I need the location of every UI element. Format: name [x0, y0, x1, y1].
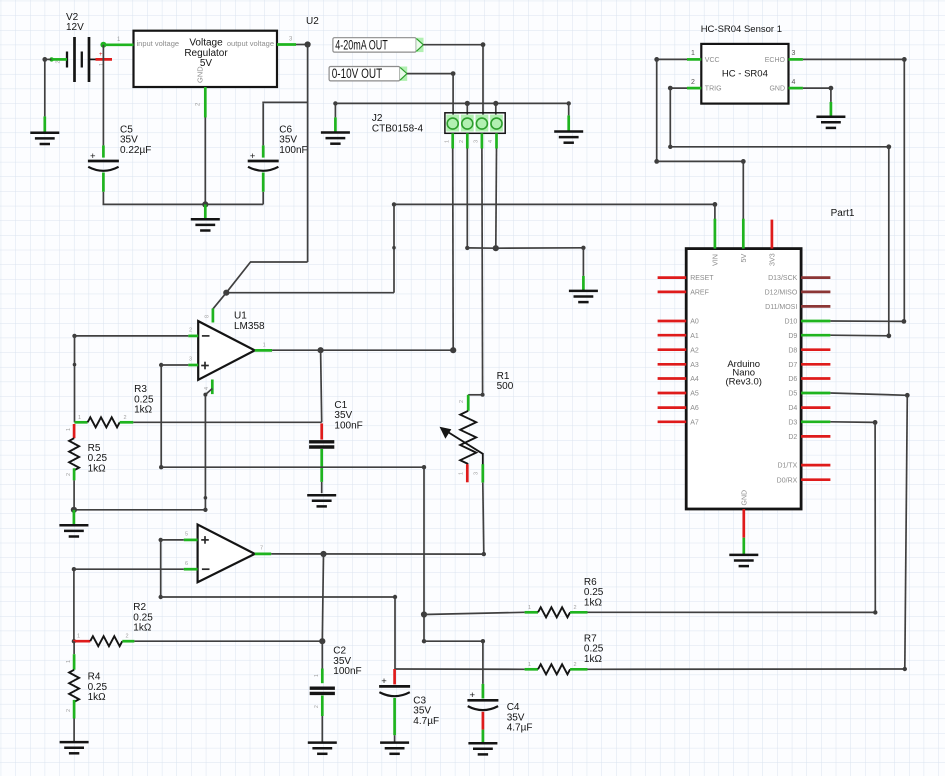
Arduino pin D3 — [788, 419, 830, 426]
svg-text:HC - SR04: HC - SR04 — [722, 69, 768, 80]
wire R5 to ground node — [73, 480, 75, 509]
svg-text:TRIG: TRIG — [705, 86, 722, 93]
Arduino pin A5 (red, unconnected) — [658, 391, 699, 398]
svg-text:4: 4 — [488, 140, 494, 143]
wire C2 branch down — [322, 554, 323, 641]
svg-text:0.22µF: 0.22µF — [120, 145, 151, 156]
wire HC-SR04 GND to ground — [803, 86, 833, 102]
svg-text:A5: A5 — [690, 391, 699, 398]
battery V2 pin + (red, unconnected) — [96, 52, 113, 59]
ground (C1) — [307, 495, 336, 506]
svg-text:4: 4 — [204, 387, 210, 390]
wire U1B inverting input to R2/R4 — [72, 567, 184, 643]
resistor R3 pin 1 (green) — [75, 415, 88, 423]
capacitor C4 label — [507, 702, 533, 733]
U2 pin 1 input (green) + wire from battery — [100, 37, 133, 48]
wire R2 junction to R4 — [73, 641, 75, 654]
wire J2 gnd rail — [333, 101, 571, 117]
wire ECHO to Arduino D10 — [803, 57, 907, 321]
Arduino pin RESET (red, unconnected) — [658, 275, 715, 282]
wire C5 to gnd rail — [103, 192, 264, 205]
svg-text:GND: GND — [769, 86, 785, 93]
wire battery - to ground — [42, 57, 51, 116]
Arduino pin A4 (red, unconnected) — [658, 376, 699, 383]
svg-text:3: 3 — [474, 140, 480, 143]
wire R4 to ground — [73, 719, 75, 742]
connector J2 label — [372, 113, 424, 134]
resistor R6 pin 1 (green) — [525, 605, 538, 613]
wire J2 pin4 stub down — [495, 103, 497, 119]
svg-text:(Rev3.0): (Rev3.0) — [725, 376, 761, 387]
svg-text:2: 2 — [66, 709, 72, 712]
svg-text:A2: A2 — [690, 347, 699, 354]
wire VCC to Arduino 5V — [654, 57, 745, 220]
capacitor C4 — [467, 690, 498, 710]
potentiometer R1 pin 2 (green) — [459, 395, 468, 411]
svg-text:2: 2 — [126, 634, 129, 640]
ground (HC-SR04) — [816, 102, 845, 128]
capacitor C2 pin 2 (green) — [314, 696, 322, 717]
wire R3 to C1 — [133, 421, 321, 423]
wire C4 pin to ground stub — [482, 730, 485, 743]
svg-text:2: 2 — [56, 60, 62, 63]
svg-text:100nF: 100nF — [334, 420, 362, 431]
svg-text:1: 1 — [314, 674, 320, 677]
svg-text:D9: D9 — [788, 333, 797, 340]
ground (battery) — [30, 116, 59, 144]
svg-text:input voltage: input voltage — [137, 39, 180, 48]
resistor R5 label — [88, 443, 108, 474]
wire U1 output — [272, 349, 453, 351]
op-amp U1 — [198, 321, 255, 380]
potentiometer R1 pin 1 (red, unconnected) — [459, 464, 468, 482]
node R2 / C2 — [319, 638, 325, 644]
svg-text:Voltage: Voltage — [189, 38, 223, 49]
resistor R2 pin 2 (green) — [122, 634, 134, 642]
svg-text:D11/MOSI: D11/MOSI — [765, 304, 797, 311]
svg-text:2: 2 — [459, 140, 465, 143]
wire C1 branch down — [321, 350, 322, 422]
wire J2 pin3 to R1 — [468, 149, 484, 397]
svg-text:+: + — [381, 676, 387, 687]
wire U1B +input to C3/R7 — [159, 538, 525, 670]
svg-text:2: 2 — [574, 605, 577, 611]
wire R7 to D5 — [588, 667, 908, 671]
svg-text:3: 3 — [474, 472, 480, 475]
svg-text:A0: A0 — [690, 319, 699, 326]
svg-text:D8: D8 — [788, 347, 797, 354]
resistor R6 label — [584, 577, 604, 608]
resistor R3 — [88, 417, 120, 427]
ground (R5 / U1 V-) — [59, 510, 88, 537]
Arduino pin 3V3 (red, unconnected) — [771, 220, 774, 249]
wire C3 to ground — [394, 735, 396, 741]
svg-text:1: 1 — [77, 634, 80, 640]
flag 0-10V OUT — [329, 66, 407, 81]
capacitor C6 pin 1 (green) — [262, 145, 265, 157]
capacitor C1 pin 2 (green) — [320, 449, 323, 482]
node J2 pin4/pin2 gnd — [493, 245, 499, 251]
wire U1B output — [271, 553, 484, 555]
resistor R2 — [90, 636, 122, 646]
svg-text:1kΩ: 1kΩ — [584, 654, 603, 665]
svg-text:2: 2 — [691, 79, 695, 86]
svg-text:+: + — [90, 151, 96, 162]
voltage regulator U2 label — [306, 16, 319, 27]
svg-text:1kΩ: 1kΩ — [88, 692, 107, 703]
battery V2 label — [66, 12, 84, 33]
wire TRIG to Arduino D9 — [668, 86, 891, 336]
op-amp U1 pin 2 inverting (green) — [188, 328, 198, 336]
resistor R6 — [538, 607, 570, 617]
HC-SR04 sensor label — [701, 24, 782, 35]
wire C6 top — [262, 102, 307, 204]
resistor R2 pin 1 (red, unconnected) — [73, 634, 90, 642]
ground (J2 pins 2/4) — [569, 276, 598, 302]
svg-text:U2: U2 — [306, 16, 319, 27]
svg-text:VIN: VIN — [711, 254, 720, 266]
capacitor C1 label — [334, 400, 362, 431]
wire battery + down to C5 — [102, 45, 104, 146]
capacitor C6 pin 2 (green) — [262, 173, 265, 192]
resistor R5 pin 1 (red, unconnected) — [66, 424, 74, 438]
svg-text:1: 1 — [66, 428, 72, 431]
potentiometer R1 pin 3 (green) — [474, 464, 483, 482]
svg-text:A1: A1 — [690, 333, 699, 340]
resistor R4 label — [88, 672, 108, 703]
wire VIN from 5V rail node — [713, 202, 718, 220]
Arduino pin D6 (red, unconnected) — [788, 376, 830, 383]
wire U2 GND down — [204, 118, 206, 205]
resistor R7 — [538, 664, 570, 674]
Arduino pin D9 — [788, 333, 830, 340]
wire node A to U1 V+ — [213, 293, 226, 309]
svg-text:3V3: 3V3 — [768, 253, 777, 266]
svg-text:D4: D4 — [788, 405, 797, 412]
svg-text:output voltage: output voltage — [227, 39, 274, 48]
capacitor C2 label — [333, 646, 361, 677]
ground (J2 rail right) — [554, 115, 583, 142]
Arduino pin GND (red) — [742, 509, 745, 538]
ground (Arduino) — [729, 538, 758, 566]
svg-text:2: 2 — [189, 328, 192, 334]
svg-text:1: 1 — [691, 50, 695, 57]
capacitor C6 label — [279, 124, 307, 155]
U2 pin 3 output (green) — [277, 37, 296, 45]
svg-text:D12/MISO: D12/MISO — [765, 290, 798, 297]
potentiometer R1 wiper arrow — [440, 427, 483, 465]
ground (C5/C6 rail) — [191, 204, 220, 230]
capacitor C5 label — [120, 124, 151, 155]
capacitor C5 pin 1 (green) — [102, 145, 105, 157]
svg-text:D10: D10 — [784, 319, 797, 326]
HC-SR04 pin 3 ECHO (green) — [789, 58, 803, 61]
wire C2 to ground — [321, 716, 323, 742]
capacitor C2 pin 1 (green) — [314, 669, 322, 684]
wire 0-10V OUT to J2 pin1 — [407, 71, 456, 119]
capacitor C3 label — [413, 696, 439, 727]
capacitor C1 pin 1 (red, unconnected) — [320, 423, 323, 439]
svg-text:1: 1 — [263, 342, 266, 348]
svg-text:1: 1 — [66, 660, 72, 663]
wire C1 to ground — [321, 482, 323, 493]
wire gnd branch right — [496, 246, 586, 276]
wire J2 pin2 to gnd — [465, 149, 496, 251]
op-amp U1B — [198, 525, 255, 583]
HC-SR04 pin 2 TRIG (green) — [687, 87, 701, 90]
capacitor C4 pin 1 (red, unconnected) — [482, 712, 485, 730]
svg-text:7: 7 — [260, 546, 263, 552]
ground (C3) — [380, 743, 409, 754]
capacitor C6 — [248, 151, 279, 171]
op-amp U1 pin 3 non-inverting (green) — [188, 357, 198, 365]
svg-text:4.7µF: 4.7µF — [413, 716, 439, 727]
svg-text:0-10V OUT: 0-10V OUT — [332, 66, 383, 81]
HC-SR04 pin 4 GND (green) — [789, 87, 803, 90]
svg-text:4-20mA OUT: 4-20mA OUT — [335, 37, 388, 52]
Arduino pin D8 (red, unconnected) — [788, 347, 830, 354]
HC-SR04 pin numbers — [691, 50, 796, 86]
op-amp U1B pin 7 output (green) — [255, 546, 271, 554]
Arduino pin VIN (green) — [714, 219, 717, 249]
wire R6 left — [424, 612, 525, 614]
svg-text:D7: D7 — [788, 362, 797, 369]
svg-text:3: 3 — [189, 357, 192, 363]
svg-text:A4: A4 — [690, 376, 699, 383]
svg-text:1: 1 — [459, 472, 465, 475]
wire D10 to ECHO — [830, 319, 906, 324]
op-amp U1 V+ pin (green) — [205, 309, 213, 323]
voltage regulator U2 box — [134, 31, 278, 87]
wire R1 wiper to op-amp2 output — [482, 483, 486, 557]
capacitor C3 pin 2 (green) — [393, 698, 396, 735]
svg-text:4.7µF: 4.7µF — [507, 723, 533, 734]
wire J2 pin1 to U1 output — [452, 149, 455, 351]
svg-text:D6: D6 — [788, 376, 797, 383]
Arduino pin D1/TX (red, unconnected) — [777, 463, 830, 470]
svg-text:1kΩ: 1kΩ — [133, 623, 152, 634]
capacitor C4 pin 2 (green) — [482, 684, 485, 699]
svg-text:A7: A7 — [690, 419, 699, 426]
svg-text:GND: GND — [196, 66, 205, 83]
resistor R5 — [69, 438, 79, 470]
Arduino part label — [831, 208, 855, 219]
potentiometer R1 — [460, 411, 476, 464]
resistor R3 label — [134, 384, 154, 415]
wire D5 to R7 — [830, 393, 909, 669]
svg-text:D2: D2 — [788, 434, 797, 441]
resistor R4 pin 2 (green) — [66, 700, 74, 719]
svg-text:D5: D5 — [788, 391, 797, 398]
node J2 rail pin4 — [493, 101, 498, 106]
op-amp U1 pin 1 output (green) — [255, 342, 272, 350]
svg-text:5: 5 — [185, 532, 188, 538]
resistor R7 label — [584, 634, 604, 665]
wire R2 to C2 — [134, 640, 322, 642]
flag 4-20mA OUT — [333, 37, 424, 52]
node R6 junction — [421, 611, 427, 617]
wire U2 output to node — [296, 44, 308, 46]
svg-text:4: 4 — [792, 79, 796, 86]
svg-text:VCC: VCC — [705, 57, 720, 64]
wire R6 to D3 — [588, 610, 878, 614]
Arduino pin D11/MOSI — [765, 304, 830, 311]
wire D9 to TRIG — [830, 333, 891, 338]
ground (R4) — [60, 742, 89, 753]
svg-text:12V: 12V — [66, 22, 84, 33]
Arduino pin D12/MISO — [765, 290, 831, 297]
wire D3 to R6 — [830, 420, 877, 612]
Arduino pin D10 — [784, 319, 830, 326]
connector J2 pin stubs (green) — [453, 133, 497, 148]
svg-text:2: 2 — [574, 662, 577, 668]
svg-text:AREF: AREF — [690, 290, 709, 297]
resistor R6 pin 2 (green) — [570, 605, 587, 613]
connector J2 pin numbers — [444, 140, 494, 143]
svg-text:100nF: 100nF — [333, 666, 361, 677]
svg-text:ECHO: ECHO — [765, 57, 786, 64]
Arduino pin D4 (red, unconnected) — [788, 405, 830, 412]
svg-text:1: 1 — [528, 605, 531, 611]
resistor R2 label — [133, 602, 153, 633]
wire U1 inverting input to R3/R5 — [72, 334, 188, 423]
svg-text:1kΩ: 1kΩ — [134, 405, 153, 416]
capacitor C1 — [309, 442, 334, 447]
Arduino pin D0/RX (red, unconnected) — [777, 477, 831, 484]
node J2 rail pin2 — [465, 101, 470, 106]
svg-text:+: + — [470, 690, 476, 701]
svg-text:+: + — [250, 151, 256, 162]
node U2 output (5V) — [305, 41, 311, 47]
svg-text:5V: 5V — [739, 254, 748, 263]
svg-text:A3: A3 — [690, 362, 699, 369]
svg-text:D1/TX: D1/TX — [777, 463, 797, 470]
wire J2 pin4 down — [495, 149, 498, 249]
capacitor C3 — [379, 676, 410, 696]
resistor R7 pin 1 (green) — [525, 662, 538, 670]
capacitor C5 pin 2 (green) — [102, 173, 105, 192]
svg-text:D3: D3 — [788, 419, 797, 426]
op-amp U1 label — [234, 311, 265, 332]
op-amp U1B pin 6 inverting (green) — [184, 561, 198, 569]
Arduino pin A3 (red, unconnected) — [658, 362, 699, 369]
svg-text:2: 2 — [459, 400, 465, 403]
wire U1 non-inverting input rail — [159, 363, 188, 467]
svg-text:2: 2 — [66, 473, 72, 476]
Arduino pin A1 (red, unconnected) — [658, 333, 699, 340]
svg-text:1: 1 — [78, 415, 81, 421]
Arduino top pin labels — [711, 253, 777, 505]
svg-text:6: 6 — [185, 561, 188, 567]
battery V2 pin - (green) — [49, 57, 67, 61]
ground (C2) — [308, 743, 337, 754]
svg-text:+: + — [99, 52, 103, 58]
node U1B output / C2 — [320, 551, 326, 557]
svg-text:8: 8 — [205, 315, 211, 318]
svg-text:1kΩ: 1kΩ — [584, 597, 603, 608]
op-amp U1 V- pin (green) — [204, 380, 212, 395]
svg-text:LM358: LM358 — [234, 321, 265, 332]
Arduino pin A7 (red, unconnected) — [658, 419, 699, 426]
ground (C4) — [468, 743, 497, 754]
battery V2 — [56, 37, 106, 82]
node A (5V to op-amp V+) — [223, 290, 229, 296]
Arduino Nano box — [686, 249, 801, 509]
svg-text:1: 1 — [528, 662, 531, 668]
Arduino pin A0 (red, unconnected) — [658, 319, 699, 326]
svg-text:D13/SCK: D13/SCK — [768, 275, 798, 282]
op-amp U1B pin 5 non-inverting (green) — [184, 532, 198, 540]
svg-text:Part1: Part1 — [831, 208, 855, 219]
svg-text:2: 2 — [314, 705, 320, 708]
resistor R4 — [69, 670, 79, 702]
resistor R7 pin 2 (green) — [570, 662, 587, 670]
capacitor C3 pin 1 (red, unconnected) — [393, 669, 396, 684]
svg-text:2: 2 — [124, 415, 127, 421]
resistor R5 pin 2 (green) — [66, 468, 74, 480]
svg-text:RESET: RESET — [690, 275, 714, 282]
wire 4-20mA OUT to J2 pin3 — [423, 42, 485, 119]
wire U1 +input rail to R6/C4 — [159, 465, 485, 684]
node U1 output / C1 — [318, 347, 324, 353]
Arduino pin D7 (red, unconnected) — [788, 362, 830, 369]
potentiometer R1 label — [497, 371, 514, 392]
wire 5V net: U2 out down/over to op-amp and rail — [226, 45, 715, 293]
node gnd rail — [202, 201, 208, 207]
svg-text:GND: GND — [742, 490, 749, 506]
Arduino pin D5 — [788, 391, 830, 398]
node U1 output / J2 pin1 — [450, 347, 456, 353]
svg-text:CTB0158-4: CTB0158-4 — [372, 123, 424, 134]
wire U1 V- down — [74, 389, 212, 512]
capacitor C5 — [88, 151, 119, 171]
HC-SR04 pin 1 VCC (green) — [687, 58, 701, 61]
Arduino pin A6 (red, unconnected) — [658, 405, 699, 412]
wire J2 pin2 stub down — [466, 103, 468, 119]
ground (J2 rail left) — [321, 117, 350, 143]
U2 pin 2 GND (green) — [196, 87, 206, 118]
node R5/ground — [71, 507, 77, 513]
connector J2 body — [445, 113, 505, 134]
svg-text:500: 500 — [497, 381, 514, 392]
svg-text:HC-SR04 Sensor 1: HC-SR04 Sensor 1 — [701, 24, 782, 35]
capacitor C2 — [310, 688, 335, 693]
svg-text:A6: A6 — [690, 405, 699, 412]
wire C2 top — [321, 641, 323, 668]
svg-text:3: 3 — [792, 50, 796, 57]
svg-text:1kΩ: 1kΩ — [88, 463, 107, 474]
Arduino pin A2 (red, unconnected) — [658, 347, 699, 354]
resistor R4 pin 1 (green) — [66, 654, 74, 670]
HC-SR04 sensor box — [701, 44, 788, 104]
resistor R3 pin 2 (green) — [120, 415, 134, 423]
svg-text:100nF: 100nF — [279, 145, 307, 156]
svg-text:D0/RX: D0/RX — [777, 477, 798, 484]
Arduino pin AREF (red, unconnected) — [658, 290, 709, 297]
svg-text:1: 1 — [444, 140, 450, 143]
Arduino pin D13/SCK — [768, 275, 830, 282]
Arduino pin D2 (red, unconnected) — [788, 434, 830, 441]
Arduino pin 5V (green) — [742, 219, 745, 249]
